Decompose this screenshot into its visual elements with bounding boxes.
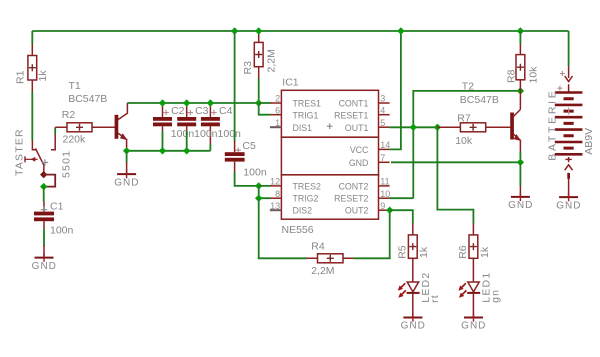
svg-text:R8: R8 xyxy=(505,69,517,83)
svg-text:rt: rt xyxy=(429,294,441,303)
LED LED1 gn xyxy=(458,272,501,317)
wire cap bottoms to rail xyxy=(163,131,211,151)
svg-text:BATTERIE: BATTERIE xyxy=(546,89,558,161)
wire C5 drop from rail xyxy=(234,31,236,142)
resistor R6 xyxy=(457,224,491,283)
wire T1 emitter rail xyxy=(127,150,211,152)
svg-text:1: 1 xyxy=(275,118,280,128)
labels C2 C3 C4 xyxy=(171,105,241,140)
svg-text:R6: R6 xyxy=(457,245,469,259)
pin 9 OUT2 xyxy=(345,201,390,216)
svg-text:5501: 5501 xyxy=(61,150,73,178)
node pin2 junction xyxy=(255,99,262,106)
wire GND net pin7 xyxy=(391,161,520,163)
resistor R7 xyxy=(437,112,510,147)
wire T2 emitter to gnd node xyxy=(519,152,521,163)
node pin12 xyxy=(255,182,262,189)
node top rail R3 xyxy=(255,27,262,34)
pin 14 VCC xyxy=(350,140,390,155)
node pin8 xyxy=(255,195,262,202)
svg-text:T1: T1 xyxy=(69,80,81,92)
wire emitter node down xyxy=(519,162,521,186)
svg-text:3: 3 xyxy=(380,94,385,104)
wire v2 OUT1 riser to T2 xyxy=(390,91,521,198)
node switch/C1 junction xyxy=(40,183,47,190)
svg-text:100n: 100n xyxy=(243,166,267,178)
svg-text:RESET2: RESET2 xyxy=(334,194,368,204)
wire R3 to pins xyxy=(258,79,260,104)
svg-text:AB9V: AB9V xyxy=(583,128,595,155)
svg-text:R3: R3 xyxy=(242,61,254,75)
op-amp U1 / IC1 NE556 box xyxy=(281,77,378,236)
svg-text:220k: 220k xyxy=(63,133,87,145)
pin 10 RESET2 xyxy=(334,189,390,204)
ground GND (battery) xyxy=(556,193,581,212)
svg-text:DIS2: DIS2 xyxy=(293,206,313,216)
pin 5 OUT1 xyxy=(345,118,390,133)
svg-text:10k: 10k xyxy=(527,66,539,84)
svg-text:1k: 1k xyxy=(418,246,430,258)
svg-text:OUT1: OUT1 xyxy=(345,123,369,133)
wire top rail VCC xyxy=(32,30,568,32)
node T2 emitter xyxy=(517,159,524,166)
svg-text:10k: 10k xyxy=(455,135,473,147)
wire OUT1 net xyxy=(390,126,438,128)
capacitor C2 xyxy=(153,103,172,132)
svg-text:BC547B: BC547B xyxy=(68,93,107,105)
ground GND (LED1) xyxy=(461,313,486,331)
ground GND (T1) xyxy=(114,162,139,188)
svg-text:C5: C5 xyxy=(242,140,256,152)
wire collector rail xyxy=(127,102,258,104)
ground GND (T2) xyxy=(508,186,533,212)
capacitor C1 xyxy=(34,201,74,237)
resistor R2 xyxy=(55,109,115,145)
svg-text:R2: R2 xyxy=(62,109,76,121)
wire pin2 stub net xyxy=(259,102,271,104)
resistor R8 xyxy=(505,44,539,91)
svg-text:R4: R4 xyxy=(311,240,325,252)
svg-text:GND: GND xyxy=(556,200,581,211)
svg-text:GND: GND xyxy=(461,321,486,332)
wire left rail above R1 xyxy=(31,31,33,45)
resistor R1 xyxy=(15,44,49,92)
wire emitter to gnd xyxy=(126,151,128,163)
svg-text:TASTER: TASTER xyxy=(14,128,26,176)
node R8 bottom xyxy=(517,87,524,94)
svg-text:2: 2 xyxy=(275,94,280,104)
pin 8 TRIG2 xyxy=(270,189,318,204)
node C2 top xyxy=(159,99,166,106)
wire node to C1 xyxy=(43,187,45,202)
svg-text:6: 6 xyxy=(275,105,280,115)
node top rail C5 xyxy=(231,27,238,34)
svg-text:NE556: NE556 xyxy=(282,224,314,236)
svg-text:CONT2: CONT2 xyxy=(339,181,369,191)
svg-text:2,2M: 2,2M xyxy=(266,49,278,72)
node top rail R8 xyxy=(517,27,524,34)
svg-text:C1: C1 xyxy=(50,201,64,213)
wire R4 right to pin9 xyxy=(354,210,390,258)
node pin9 xyxy=(386,207,393,214)
svg-text:13: 13 xyxy=(270,201,280,211)
svg-text:IC1: IC1 xyxy=(282,77,299,89)
wire rail to R8 xyxy=(519,31,521,45)
svg-text:GND: GND xyxy=(401,321,426,332)
svg-text:C3: C3 xyxy=(195,105,209,117)
resistor R4 xyxy=(306,240,354,276)
node R7 left xyxy=(434,124,441,131)
wire to R4 left xyxy=(259,198,307,258)
transistor T1 BC547B xyxy=(68,80,127,151)
battery B1 AB9V xyxy=(546,66,595,197)
wire R1 to switch xyxy=(31,92,33,141)
wire battery drop xyxy=(568,31,570,66)
wire R7node down to R6 xyxy=(437,127,473,224)
svg-text:R7: R7 xyxy=(457,112,471,124)
pin 6 TRIG1 xyxy=(270,105,318,120)
wire C5 to pins 12/8 xyxy=(235,172,259,186)
svg-text:R1: R1 xyxy=(15,70,27,84)
pin 2 TRES1 xyxy=(270,94,321,109)
svg-text:TRES2: TRES2 xyxy=(293,181,321,191)
pin 1 DIS1 xyxy=(270,118,312,133)
wire pin6 L xyxy=(259,103,271,115)
svg-text:5: 5 xyxy=(380,118,385,128)
wire C1 to gnd xyxy=(43,229,45,246)
ground GND (C1) xyxy=(32,245,57,272)
svg-text:C2: C2 xyxy=(171,105,185,117)
svg-text:10: 10 xyxy=(380,189,390,199)
node C2 bottom xyxy=(159,147,166,154)
svg-text:OUT2: OUT2 xyxy=(345,206,369,216)
pin 11 CONT2 xyxy=(339,177,390,192)
LED LED2 rt xyxy=(398,272,441,317)
node v2/out1 xyxy=(410,124,417,131)
capacitor C5 xyxy=(225,140,267,178)
node C4 top xyxy=(207,99,214,106)
svg-text:100n: 100n xyxy=(50,225,74,237)
svg-text:4: 4 xyxy=(380,105,385,115)
svg-text:9: 9 xyxy=(380,201,385,211)
svg-text:RESET1: RESET1 xyxy=(334,110,368,120)
svg-text:gn: gn xyxy=(490,289,502,303)
capacitor C3 xyxy=(177,103,196,132)
svg-text:GND: GND xyxy=(114,177,139,188)
svg-text:1k: 1k xyxy=(479,246,491,258)
svg-text:12: 12 xyxy=(270,177,280,187)
svg-text:14: 14 xyxy=(380,140,390,150)
transistor T2 BC547B xyxy=(460,80,521,152)
resistor R5 xyxy=(397,224,431,283)
svg-text:VCC: VCC xyxy=(350,145,369,155)
svg-text:TRIG1: TRIG1 xyxy=(293,110,319,120)
node T1 emitter xyxy=(123,147,130,154)
svg-text:8: 8 xyxy=(275,189,280,199)
svg-text:1k: 1k xyxy=(37,70,49,82)
node C3 bottom xyxy=(183,147,190,154)
svg-text:T2: T2 xyxy=(462,80,474,92)
svg-text:TRIG2: TRIG2 xyxy=(293,194,319,204)
wire pin9 to R5 xyxy=(390,210,413,224)
pin 3 CONT1 xyxy=(339,94,390,109)
node C3 top xyxy=(183,99,190,106)
pin 12 TRES2 xyxy=(270,177,321,192)
resistor R3 xyxy=(242,31,278,79)
switch S1 TASTER 5501 xyxy=(14,127,73,186)
pin 4 RESET1 xyxy=(334,105,389,120)
svg-text:CONT1: CONT1 xyxy=(339,99,369,109)
pin 7 GND xyxy=(349,153,390,168)
svg-text:2,2M: 2,2M xyxy=(311,265,334,277)
svg-text:GND: GND xyxy=(349,158,369,168)
svg-text:7: 7 xyxy=(380,153,385,163)
svg-text:DIS1: DIS1 xyxy=(293,123,313,133)
svg-text:R5: R5 xyxy=(397,245,409,259)
svg-text:BC547B: BC547B xyxy=(460,94,499,106)
capacitor C4 xyxy=(201,103,220,144)
svg-text:GND: GND xyxy=(508,200,533,211)
node v1 top xyxy=(397,27,404,34)
svg-text:C4: C4 xyxy=(219,105,233,117)
ground GND (LED2) xyxy=(401,313,426,331)
wire pins 12-8 link xyxy=(259,186,271,198)
wire v1 VCC riser xyxy=(390,31,401,149)
svg-text:11: 11 xyxy=(380,177,389,187)
pin 13 DIS2 xyxy=(270,201,312,216)
svg-text:TRES1: TRES1 xyxy=(293,99,321,109)
svg-text:GND: GND xyxy=(32,261,57,272)
svg-text:100n100n100n: 100n100n100n xyxy=(171,128,241,140)
